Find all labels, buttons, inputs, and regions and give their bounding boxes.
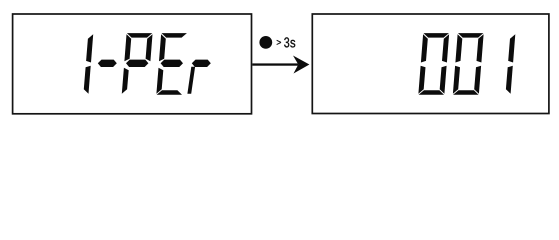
label "s" [290, 40, 295, 48]
seven-segment dash "-" [98, 60, 117, 67]
arrow head [293, 56, 309, 74]
seven-segment digit "0" (tens) [453, 33, 484, 95]
seven-segment digit "1" [84, 34, 93, 93]
seven-segment letter "E" [156, 33, 187, 95]
left LCD panel [13, 14, 252, 114]
arrow shaft [252, 63, 298, 65]
seven-segment digit "1" (units) [506, 34, 515, 93]
right LCD panel [312, 14, 549, 114]
label "3" [284, 37, 289, 47]
seven-segment digit "0" (hundreds) [418, 33, 449, 95]
seven-segment letter "r" [187, 60, 210, 94]
button press dot symbol [259, 36, 272, 49]
seven-segment text "001" [418, 33, 515, 95]
seven-segment letter "P" [122, 33, 153, 94]
label "greater than" [277, 40, 281, 45]
seven-segment text "1-PEr" [84, 33, 211, 95]
